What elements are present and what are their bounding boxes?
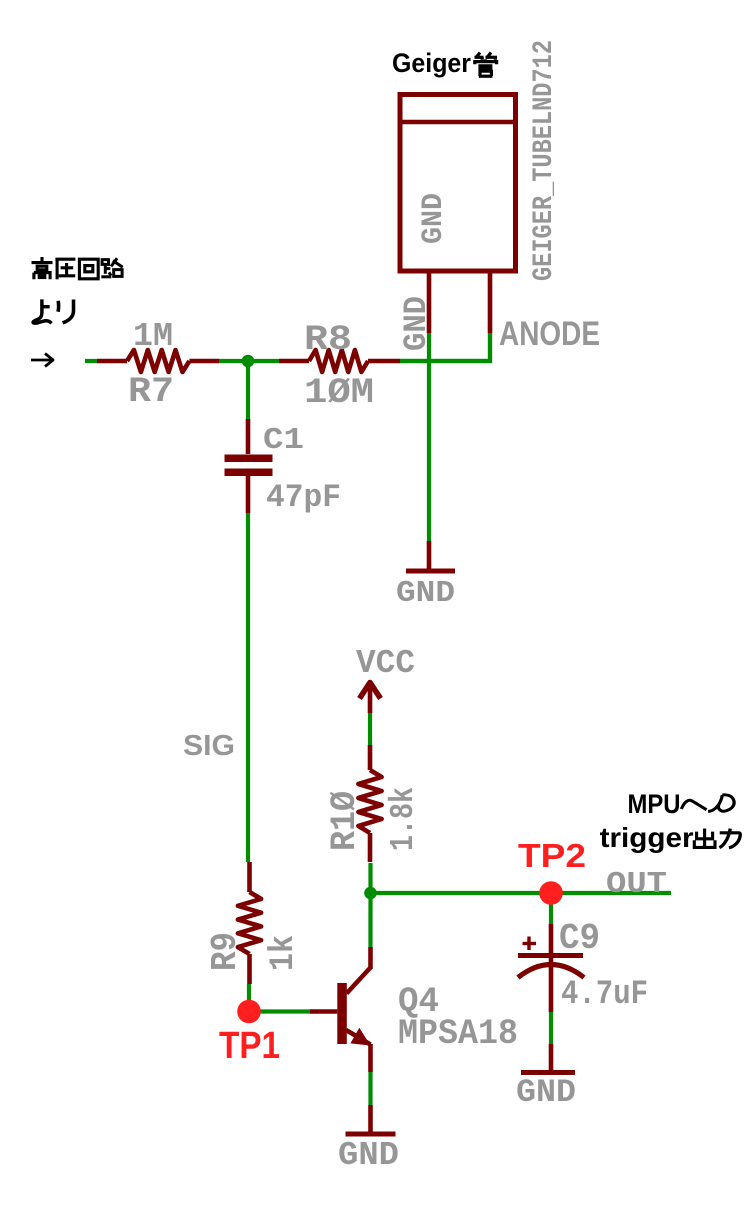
svg-text:ANODE: ANODE [499, 315, 600, 353]
svg-text:Geiger: Geiger [392, 48, 471, 78]
svg-text:GND: GND [516, 1074, 576, 1111]
svg-text:R7: R7 [128, 372, 174, 412]
svg-text:OUT: OUT [606, 867, 667, 902]
svg-text:1k: 1k [265, 935, 303, 971]
svg-text:MPSA18: MPSA18 [398, 1014, 518, 1054]
svg-text:C1: C1 [263, 423, 304, 458]
svg-text:GND: GND [417, 193, 451, 244]
svg-text:GND: GND [398, 296, 435, 351]
svg-text:SIG: SIG [183, 730, 235, 762]
svg-text:1ØM: 1ØM [304, 373, 374, 413]
svg-text:47pF: 47pF [266, 479, 341, 516]
svg-text:R8: R8 [304, 320, 352, 360]
svg-text:1.8k: 1.8k [385, 787, 422, 851]
svg-text:MPU: MPU [628, 789, 681, 819]
svg-text:VCC: VCC [356, 645, 415, 682]
svg-text:R1Ø: R1Ø [325, 791, 365, 851]
svg-text:4.7uF: 4.7uF [561, 976, 648, 1014]
svg-text:GND: GND [396, 576, 455, 611]
svg-text:GND: GND [338, 1137, 399, 1174]
svg-text:C9: C9 [559, 918, 600, 959]
svg-text:GEIGER_TUBELND712: GEIGER_TUBELND712 [529, 40, 560, 281]
svg-text:TP1: TP1 [219, 1025, 280, 1067]
svg-text:trigger: trigger [600, 822, 694, 853]
svg-text:TP2: TP2 [518, 837, 586, 874]
svg-text:1M: 1M [133, 318, 173, 355]
svg-text:R9: R9 [205, 932, 246, 971]
